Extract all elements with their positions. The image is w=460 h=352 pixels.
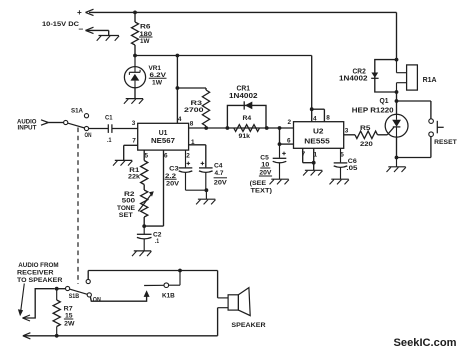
capacitor C4 xyxy=(199,162,227,191)
label AUDIO FROM RECEIVER TO SPEAKER xyxy=(17,262,63,284)
wire right rail down to relay xyxy=(396,12,398,59)
junction node R3 branch xyxy=(176,86,180,90)
mechanical link dashed line S1A-S1B xyxy=(77,128,79,285)
svg-text:U2: U2 xyxy=(313,127,324,136)
junction node C3/C4 ground xyxy=(205,188,209,192)
junction node CR1 left xyxy=(226,126,230,130)
svg-text:10-15V DC: 10-15V DC xyxy=(42,21,79,28)
svg-text:C1: C1 xyxy=(105,115,113,122)
junction node R6 top xyxy=(133,11,137,15)
wire U2 pins 4-8 strap xyxy=(312,109,325,122)
diode CR2 1N4002 xyxy=(339,60,397,92)
svg-text:R3: R3 xyxy=(191,100,203,107)
ground (C3/C4) xyxy=(196,190,215,204)
wire U2 pin 1 xyxy=(313,148,315,170)
svg-text:4: 4 xyxy=(178,116,182,123)
junction node R7 top xyxy=(55,287,59,291)
svg-text:R6: R6 xyxy=(140,24,151,31)
wire S1A to C1 xyxy=(89,128,109,130)
wire bottom return rail xyxy=(23,333,218,339)
wire U1 pin 4 riser xyxy=(176,56,178,124)
resistor R4 xyxy=(234,115,260,140)
svg-text:R4: R4 xyxy=(243,115,252,122)
svg-text:INPUT: INPUT xyxy=(18,124,37,131)
junction node CR1 right xyxy=(265,126,269,130)
wire S1B upper contact riser xyxy=(87,271,89,280)
wire R6 top stem xyxy=(134,12,136,22)
pin 3 label U1 xyxy=(132,120,136,127)
relay contact K1B xyxy=(144,271,180,300)
junction node pin 6 xyxy=(278,142,282,146)
ground (U2 pins 1,7) xyxy=(303,170,322,175)
pin 8 label U2 xyxy=(326,115,330,122)
junction node R7 bottom xyxy=(55,334,59,338)
junction node U1 pin4 branch xyxy=(176,54,180,58)
resistor R5 xyxy=(355,125,378,148)
junction node pin6 branch xyxy=(278,126,282,130)
watermark SeekIC.com xyxy=(394,337,457,349)
svg-text:C3: C3 xyxy=(169,166,179,173)
junction node K1B branch xyxy=(178,269,182,273)
ground (C2) xyxy=(132,251,151,256)
svg-text:S1A: S1A xyxy=(71,108,83,115)
capacitor C1 xyxy=(105,115,113,144)
ground (VR1) xyxy=(124,88,143,104)
pin 3 label U2 xyxy=(345,127,349,134)
svg-text:NE555: NE555 xyxy=(304,136,329,145)
svg-text:SET: SET xyxy=(119,212,133,219)
svg-text:8: 8 xyxy=(190,121,194,128)
pin 6 label U2 xyxy=(287,137,291,144)
pin 1 label U2 xyxy=(314,151,318,158)
junction node VR1 top xyxy=(133,54,137,58)
junction node pin 4 supply xyxy=(310,107,314,111)
svg-text:VR1: VR1 xyxy=(149,65,162,72)
pin 2 label U1 xyxy=(186,152,190,159)
wire S1B ON to K1B actuator xyxy=(90,290,149,301)
svg-text:R5: R5 xyxy=(360,125,371,132)
wire +V top rail xyxy=(89,11,397,13)
label 10-15V DC xyxy=(42,21,79,28)
junction node R3 bottom xyxy=(204,126,208,130)
pin 5 label U1 xyxy=(145,152,149,159)
svg-text:1N4002: 1N4002 xyxy=(339,74,368,83)
ground (U1 pin 7) xyxy=(113,160,132,165)
junction node Q1 anode xyxy=(395,99,399,103)
wire R6 bottom stem xyxy=(134,45,136,56)
svg-text:5: 5 xyxy=(145,152,149,159)
svg-text:K1B: K1B xyxy=(162,292,175,299)
svg-text:220: 220 xyxy=(360,141,373,148)
op-amp U1 NE567 tone decoder xyxy=(138,123,189,150)
svg-text:4: 4 xyxy=(313,115,317,122)
resistor R6 xyxy=(132,22,153,45)
svg-text:NE567: NE567 xyxy=(151,136,175,145)
svg-text:4.7: 4.7 xyxy=(215,170,224,177)
svg-text:ON: ON xyxy=(93,296,101,303)
speaker xyxy=(218,288,266,330)
wire +6.2V rail xyxy=(135,55,312,57)
resistor R7 xyxy=(53,289,75,336)
svg-text:C6: C6 xyxy=(348,158,357,165)
DC supply - input terminal arrow xyxy=(79,24,109,34)
wire R3 top branch xyxy=(177,88,206,90)
capacitor C3 xyxy=(165,150,207,190)
svg-text:R1A: R1A xyxy=(423,75,437,84)
svg-text:Q1: Q1 xyxy=(380,98,389,105)
annotation arrow to receiver wires xyxy=(18,284,24,317)
wire speaker top feed xyxy=(88,270,217,272)
ground (supply minus) xyxy=(97,30,119,40)
audio input terminal arrow xyxy=(41,120,64,125)
svg-text:500: 500 xyxy=(122,197,136,204)
svg-text:HEP R1220: HEP R1220 xyxy=(352,106,394,115)
wire pin6 branch down xyxy=(279,128,281,144)
wire to U2 pin 6 xyxy=(280,143,294,145)
capacitor C2 xyxy=(137,226,162,251)
svg-text:ON: ON xyxy=(85,132,92,139)
junction node CR2 top xyxy=(395,58,399,62)
ground (C5) xyxy=(270,179,289,184)
thyristor Q1 HEP R1220 xyxy=(352,98,408,137)
svg-text:6: 6 xyxy=(287,137,291,144)
svg-text:20V: 20V xyxy=(166,180,180,187)
svg-text:.1: .1 xyxy=(107,137,112,144)
svg-text:AUDIO FROM: AUDIO FROM xyxy=(18,262,59,269)
wire S1B common to receiver terminal xyxy=(23,289,55,321)
svg-text:1N4002: 1N4002 xyxy=(229,91,258,100)
pin 4 label U2 xyxy=(313,115,317,122)
wire reset bottom xyxy=(397,137,431,158)
wire node to U1 pin 6 xyxy=(144,150,163,226)
wire Q1 anode xyxy=(396,101,398,114)
junction node pins 7-1 xyxy=(312,161,316,165)
switch S1A xyxy=(64,108,92,140)
svg-text:SPEAKER: SPEAKER xyxy=(231,322,265,329)
svg-text:2: 2 xyxy=(288,119,292,126)
svg-text:+: + xyxy=(77,8,82,17)
svg-text:TEXT): TEXT) xyxy=(251,188,273,195)
relay coil R1A xyxy=(397,60,437,92)
svg-text:.05: .05 xyxy=(346,165,357,172)
svg-text:2: 2 xyxy=(186,152,190,159)
pin 5 label U2 xyxy=(340,151,344,158)
wire C1 to U1 pin 3 xyxy=(112,128,138,130)
svg-text:RESET: RESET xyxy=(434,139,457,146)
wire U1 pin 7 xyxy=(124,145,138,160)
svg-text:6: 6 xyxy=(164,152,168,159)
wire S1B common stub xyxy=(57,288,66,290)
DC supply + input terminal arrow xyxy=(77,8,94,17)
svg-text:1W: 1W xyxy=(152,80,163,87)
svg-text:3: 3 xyxy=(345,127,349,134)
zener diode VR1 xyxy=(124,56,166,88)
wire R5 to gate xyxy=(378,134,388,136)
svg-text:2W: 2W xyxy=(64,321,75,328)
pin 7 label U2 xyxy=(302,151,306,158)
svg-text:8: 8 xyxy=(326,115,330,122)
diode CR1 1N4002 xyxy=(227,86,266,129)
pin 8 label U1 xyxy=(190,121,194,128)
pin 2 label U2 xyxy=(288,119,292,126)
svg-text:R7: R7 xyxy=(64,305,73,312)
junction node Q1 cathode xyxy=(395,156,399,160)
wire U1 pin 5 stem xyxy=(143,150,145,160)
svg-text:22k: 22k xyxy=(128,174,140,181)
svg-text:2700: 2700 xyxy=(184,107,204,114)
pin 6 label U1 xyxy=(164,152,168,159)
svg-text:20V: 20V xyxy=(214,180,228,187)
svg-text:C4: C4 xyxy=(214,163,223,170)
potentiometer R2 tone set xyxy=(117,190,154,219)
pin 4 label U1 xyxy=(178,116,182,123)
capacitor C5 xyxy=(250,144,287,194)
capacitor C6 xyxy=(334,148,358,179)
wire reset top xyxy=(397,101,431,119)
resistor R1 xyxy=(128,161,148,185)
svg-text:.1: .1 xyxy=(155,238,159,245)
wire R1 to R2 xyxy=(143,185,145,191)
pin 7 label U1 xyxy=(132,138,136,145)
svg-text:RECEIVER: RECEIVER xyxy=(17,269,54,276)
wire U1 pin 1 to C4 xyxy=(189,145,206,168)
timer U2 NE555 xyxy=(294,122,344,149)
label AUDIO INPUT xyxy=(17,118,37,131)
wire U2 pin 7 xyxy=(303,148,314,162)
switch S1B xyxy=(66,279,102,303)
svg-text:(SEE: (SEE xyxy=(250,180,267,187)
pin 1 label U1 xyxy=(191,139,195,146)
ground (Q1 cathode) xyxy=(387,158,406,173)
svg-text:–: – xyxy=(79,24,84,34)
junction node CR2 bottom xyxy=(395,90,399,94)
wire Q1 cathode xyxy=(396,137,398,157)
svg-text:S1B: S1B xyxy=(69,293,80,300)
svg-text:SeekIC.com: SeekIC.com xyxy=(394,337,457,349)
svg-text:3: 3 xyxy=(132,120,136,127)
wire CR2 bottom to Q1 xyxy=(396,92,398,101)
wire speaker return xyxy=(217,308,219,336)
svg-text:C5: C5 xyxy=(260,154,269,161)
wire NE555 supply drop xyxy=(311,56,313,110)
svg-text:1W: 1W xyxy=(140,38,150,45)
wire speaker right feed xyxy=(217,271,219,298)
wire U1 pin 8 to U2 pin 2 xyxy=(189,127,294,129)
svg-text:7: 7 xyxy=(132,138,136,145)
resistor R3 xyxy=(184,90,210,128)
ground (C6) xyxy=(330,179,349,184)
junction node R2/C2/pin6 xyxy=(142,224,146,228)
svg-text:TO SPEAKER: TO SPEAKER xyxy=(17,277,63,284)
wire R2 to node xyxy=(143,217,145,226)
svg-text:91k: 91k xyxy=(239,133,251,140)
pushbutton RESET xyxy=(429,119,457,146)
wire U2 pin 3 xyxy=(344,134,355,136)
